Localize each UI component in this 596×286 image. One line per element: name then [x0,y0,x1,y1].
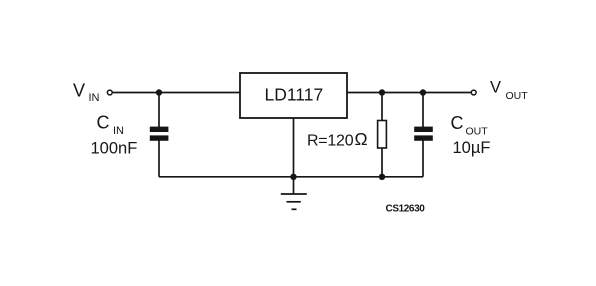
svg-text:LD1117: LD1117 [265,85,324,105]
wire bottom ground rail [159,176,423,178]
node junction ground rail / regulator pin [290,174,296,180]
wire regulator ground pin [293,118,295,177]
capacitor Cin plates [150,127,169,141]
wire resistor bottom leg [381,148,383,177]
svg-text:V: V [490,79,501,97]
svg-text:10µF: 10µF [453,139,491,157]
wire output rail [347,92,471,94]
svg-text:Ω: Ω [355,129,368,149]
node junction ground rail / resistor [379,174,385,180]
svg-text:IN: IN [113,125,124,137]
svg-text:V: V [73,81,85,101]
resistor R body [378,121,387,149]
terminal Vin [107,90,112,95]
capacitor Cout plates [414,127,433,141]
svg-text:C: C [97,113,110,133]
svg-text:OUT: OUT [506,90,529,102]
terminal Vout [471,90,476,95]
wire input rail [113,92,241,94]
node junction Vin/Cin [156,89,162,95]
node junction Vout/R [379,89,385,95]
svg-text:100nF: 100nF [91,140,138,158]
svg-text:OUT: OUT [466,126,489,138]
wire resistor top leg [381,93,383,121]
wire Cin bottom leg [158,141,160,177]
ground symbol [281,177,307,210]
node junction Vout/Cout [420,89,426,95]
svg-text:CS12630: CS12630 [386,204,426,215]
regulator U1 LD1117 body [240,73,347,118]
svg-text:IN: IN [89,92,100,104]
svg-text:C: C [451,113,464,133]
svg-text:R=120: R=120 [307,132,354,149]
wire Cout top leg [422,93,424,128]
wire Cin top leg [158,93,160,128]
wire Cout bottom leg [422,141,424,177]
